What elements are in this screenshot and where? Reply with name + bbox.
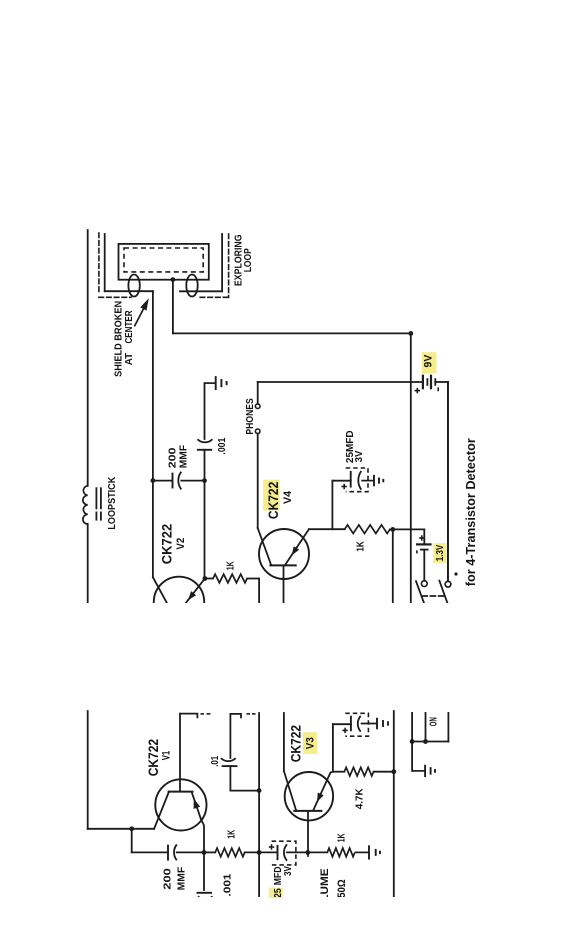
svg-text:1K: 1K: [225, 830, 237, 839]
svg-text:V1: V1: [160, 751, 172, 761]
svg-text:ON: ON: [427, 717, 439, 726]
svg-text:25: 25: [272, 888, 284, 898]
svg-text:AT: AT: [123, 352, 135, 365]
svg-text:CK722: CK722: [289, 725, 304, 762]
svg-text:.01: .01: [209, 756, 221, 767]
svg-text:PHONES: PHONES: [244, 398, 256, 434]
svg-text:CK722: CK722: [160, 524, 175, 564]
svg-text:1K: 1K: [224, 561, 236, 570]
svg-text:1.3V: 1.3V: [434, 545, 446, 561]
svg-text:LOOPSTICK: LOOPSTICK: [106, 476, 118, 529]
svg-text:1K: 1K: [355, 541, 367, 552]
svg-text:3V: 3V: [353, 451, 365, 463]
svg-text:200: 200: [162, 868, 174, 890]
svg-text:9V: 9V: [423, 354, 435, 367]
svg-text:.001: .001: [216, 437, 228, 454]
svg-text:V2: V2: [175, 538, 187, 550]
svg-text:CK722: CK722: [146, 739, 161, 776]
svg-text:LOOP: LOOP: [243, 248, 254, 272]
svg-text:50Ω: 50Ω: [336, 879, 348, 898]
svg-text:CENTER: CENTER: [123, 310, 135, 343]
svg-text:V4: V4: [282, 490, 294, 504]
svg-text:CK722: CK722: [266, 482, 281, 519]
svg-text:for 4-Transistor Detector: for 4-Transistor Detector: [463, 438, 478, 586]
svg-text:MMF: MMF: [178, 444, 190, 468]
svg-text:4.7K: 4.7K: [353, 788, 365, 809]
svg-text:V3: V3: [305, 737, 317, 749]
svg-text:3V: 3V: [282, 866, 294, 876]
svg-text:MMF: MMF: [176, 866, 188, 890]
svg-text:1K: 1K: [336, 833, 348, 842]
svg-text:VOLUME: VOLUME: [319, 869, 331, 919]
svg-text:.001: .001: [222, 873, 234, 896]
